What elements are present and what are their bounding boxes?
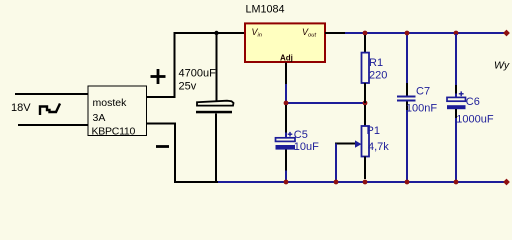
svg-text:100nF: 100nF [406, 102, 437, 114]
wire Vout pin stub [325, 32, 345, 34]
junction R1 bottom [363, 101, 368, 106]
wire AC top [15, 93, 88, 95]
svg-text:LM1084: LM1084 [246, 3, 285, 15]
junction C7 top [405, 31, 410, 36]
svg-text:10uF: 10uF [294, 141, 319, 153]
junction top rail / C1 lead [214, 31, 218, 35]
svg-text:4,7k: 4,7k [368, 141, 389, 153]
svg-text:220: 220 [369, 70, 387, 82]
capacitor C7 100nF [397, 34, 437, 182]
plus polarity mark [151, 69, 166, 84]
wire Adj pin stub [285, 62, 287, 84]
port bottom [503, 179, 510, 186]
wire AC bottom [18, 124, 88, 126]
bridge rectifier B1 mostek 3A KBPC110 [88, 86, 147, 137]
svg-text:4700uF: 4700uF [179, 68, 217, 80]
capacitor C5 10uF [276, 105, 320, 182]
svg-text:Adj: Adj [280, 53, 293, 62]
svg-text:Wy: Wy [494, 60, 510, 72]
AC source waveform symbol [40, 104, 60, 116]
svg-text:mostek: mostek [93, 97, 128, 109]
wire Adj node horizontal [286, 102, 365, 104]
junction Adj node [284, 101, 289, 106]
junction C6 bottom [454, 180, 459, 185]
svg-text:3A: 3A [93, 112, 106, 124]
wire Adj down [285, 84, 287, 103]
junction C5 bottom [284, 180, 289, 185]
svg-text:C7: C7 [416, 86, 430, 98]
regulator U1 LM1084 [245, 3, 325, 62]
junction R1 top [363, 31, 368, 36]
junction P1 wiper bottom [334, 180, 339, 185]
svg-text:R1: R1 [369, 57, 383, 69]
svg-text:1000uF: 1000uF [456, 114, 494, 126]
wire top rail blue [345, 32, 506, 34]
wire bridge - output to bottom rail [147, 124, 219, 183]
junction P1 bottom [363, 180, 368, 185]
junction C6 top [454, 31, 459, 36]
minus polarity mark [156, 145, 169, 148]
svg-text:18V: 18V [11, 102, 31, 114]
svg-text:C6: C6 [466, 96, 480, 108]
svg-text:KBPC110: KBPC110 [92, 125, 136, 137]
junction C7 bottom [405, 180, 410, 185]
capacitor C6 1000uF [447, 34, 494, 182]
wire bridge + output to top rail [147, 33, 246, 97]
capacitor C1 4700uF 25v [179, 33, 234, 182]
wire bottom rail blue [218, 181, 506, 183]
svg-text:C5: C5 [294, 129, 308, 141]
port Wy top [503, 30, 510, 37]
svg-text:25v: 25v [179, 81, 197, 93]
potentiometer P1 4,7k [335, 105, 389, 182]
svg-text:P1: P1 [367, 125, 380, 137]
resistor R1 220 [362, 35, 388, 103]
